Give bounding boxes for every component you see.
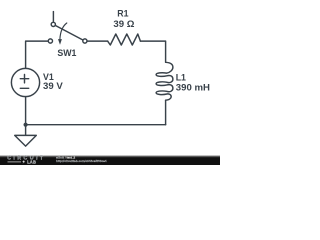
switch SW1 lever bbox=[55, 25, 83, 40]
svg-text:LAB: LAB bbox=[27, 160, 36, 165]
svg-text:SW1: SW1 bbox=[57, 48, 76, 58]
svg-text:390 mH: 390 mH bbox=[176, 83, 210, 94]
wire inductor to bottom-right corner bbox=[165, 100, 167, 125]
resistor R1 bbox=[108, 34, 141, 45]
switch SW1 right terminal bbox=[83, 39, 87, 43]
watermark logo dash bbox=[8, 161, 22, 163]
V1 minus sign bbox=[20, 87, 28, 89]
wire switch to resistor bbox=[87, 40, 108, 42]
switch SW1 arrowhead bbox=[58, 39, 62, 45]
switch SW1 throw stub bbox=[52, 12, 54, 23]
svg-text:http://circuitlab.com/c643ca5f: http://circuitlab.com/c643ca5f36ce4 bbox=[56, 159, 107, 163]
switch SW1 actuation arrow bbox=[60, 23, 67, 39]
watermark logo bolt bbox=[22, 160, 25, 164]
svg-text:R1: R1 bbox=[117, 9, 128, 19]
wire top-left horizontal bbox=[26, 41, 49, 68]
svg-text:39 Ω: 39 Ω bbox=[113, 19, 134, 30]
wire bottom bbox=[26, 124, 166, 126]
switch SW1 left terminal bbox=[48, 39, 52, 43]
svg-text:L1: L1 bbox=[176, 72, 186, 82]
svg-text:39 V: 39 V bbox=[43, 81, 63, 92]
wire V1 bottom to junction bbox=[25, 97, 27, 125]
junction node bbox=[24, 123, 28, 127]
switch SW1 top throw terminal bbox=[51, 22, 55, 26]
wire resistor to top-right corner bbox=[140, 41, 165, 62]
ground bbox=[15, 125, 37, 146]
inductor L1 bbox=[156, 62, 173, 100]
voltage source V1 bbox=[11, 68, 39, 96]
V1 plus sign bbox=[20, 75, 28, 83]
svg-text:CIRCUIT: CIRCUIT bbox=[7, 156, 45, 162]
